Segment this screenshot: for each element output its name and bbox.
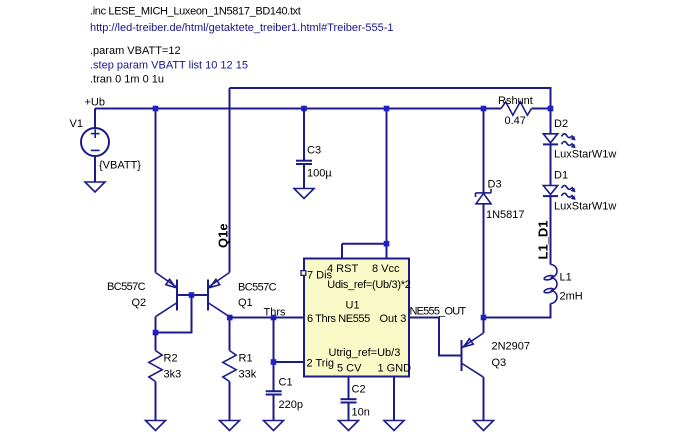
wire Vcc column (386, 109, 388, 259)
svg-text:2 Trig: 2 Trig (307, 358, 335, 370)
wire Thrs to Trig column (273, 318, 275, 392)
svg-text:.param VBATT=12: .param VBATT=12 (90, 45, 181, 57)
svg-text:Q1e: Q1e (216, 223, 231, 248)
svg-text:.inc LESE_MICH_Luxeon_1N5817_B: .inc LESE_MICH_Luxeon_1N5817_BD140.txt (90, 6, 301, 18)
junction on rail at Q2 column (153, 106, 159, 112)
schottky diode D3 (476, 189, 492, 204)
capacitor C2 (341, 399, 357, 420)
transistor Q1 BC557C (208, 273, 230, 317)
svg-text:6 Thrs NE555: 6 Thrs NE555 (307, 313, 370, 325)
svg-text:C2: C2 (352, 384, 366, 396)
voltage source V1 (81, 109, 109, 183)
svg-text:L1: L1 (560, 272, 572, 284)
junction at Q3 emitter node (481, 315, 487, 321)
svg-text:.step param VBATT list 10 12 1: .step param VBATT list 10 12 15 (90, 59, 248, 71)
svg-text:Q3: Q3 (492, 357, 507, 369)
ground below R2 (146, 421, 166, 431)
svg-text:.tran 0 1m 0 1u: .tran 0 1m 0 1u (90, 73, 164, 85)
svg-text:2mH: 2mH (560, 291, 583, 303)
wire RST drop (341, 244, 343, 259)
svg-text:2N2907: 2N2907 (492, 341, 531, 353)
wire Q3 emitter (483, 318, 485, 334)
svg-text:R2: R2 (164, 353, 178, 365)
svg-text:R1: R1 (239, 353, 253, 365)
svg-text:Q2: Q2 (132, 297, 147, 309)
resistor R2 (149, 333, 162, 421)
wire collector-base tie (156, 295, 192, 333)
op-amp-style IC U1 NE555 body (304, 259, 409, 377)
wire Thrs (230, 317, 305, 319)
capacitor C1 (266, 391, 282, 420)
wire base bus Q2-Q1 (177, 294, 208, 296)
svg-text:D2: D2 (554, 118, 568, 130)
svg-text:Q1: Q1 (238, 297, 253, 309)
svg-text:Udis_ref=(Ub/3)*2: Udis_ref=(Ub/3)*2 (327, 279, 410, 291)
svg-text:LuxStarW1w: LuxStarW1w (554, 201, 616, 213)
wire Q3 collector to ground (483, 377, 485, 420)
svg-text:C1: C1 (279, 377, 293, 389)
svg-text:0.47: 0.47 (505, 115, 526, 127)
junction at Trig tee (271, 359, 277, 365)
svg-text:8 Vcc: 8 Vcc (372, 263, 400, 275)
node L1_D1 rotated label (536, 220, 551, 259)
svg-text:C3: C3 (307, 145, 321, 157)
node Q1e rotated label (216, 223, 231, 248)
svg-text:10n: 10n (352, 407, 370, 419)
transistor Q3 2N2907 (462, 333, 484, 377)
svg-text:33k: 33k (239, 369, 257, 381)
junction on rail at D3 column (481, 106, 487, 112)
ground below V1 (85, 182, 105, 192)
wire CV drop (348, 377, 350, 400)
transistor Q2 BC557C (156, 273, 178, 317)
wire upper rail from Q1 emitter to LED chain (230, 88, 551, 109)
ground below R1 (220, 421, 240, 431)
svg-text:Rshunt: Rshunt (498, 95, 533, 107)
svg-text:BC557C: BC557C (107, 281, 146, 293)
svg-text:U1: U1 (346, 300, 360, 312)
wire lower supply rail (95, 108, 501, 110)
svg-text:3k3: 3k3 (164, 369, 182, 381)
svg-text:Out 3: Out 3 (380, 313, 407, 325)
ground below C3 (294, 189, 314, 199)
ground below Q3 (474, 421, 494, 431)
svg-text:1N5817: 1N5817 (486, 209, 525, 221)
ground below C1 (264, 421, 284, 431)
junction on base bus (189, 292, 195, 298)
svg-text:+Ub: +Ub (85, 97, 106, 109)
ground below C2 (339, 421, 359, 431)
svg-text:D1: D1 (554, 170, 568, 182)
LED D2 (543, 134, 576, 149)
wire LED column top (550, 109, 552, 134)
wire D3 column (483, 109, 485, 194)
svg-text:1 GND: 1 GND (378, 362, 412, 374)
capacitor C3 (296, 106, 312, 189)
pin 7 Dis open square (301, 271, 306, 276)
svg-text:http://led-treiber.de/html/get: http://led-treiber.de/html/getaktete_tre… (90, 22, 393, 34)
wire lower rail right of Rshunt (532, 108, 551, 110)
junction on rail at Vcc column (384, 106, 390, 112)
wire GND pin drop (393, 377, 395, 421)
wire D3 to Q3 node (483, 204, 485, 318)
wire Q2 collector to tie (155, 317, 157, 333)
wire Q1 emitter column (crosses rail) (229, 88, 231, 273)
svg-text:100µ: 100µ (307, 168, 332, 180)
wire 555 supply horizontal (342, 243, 387, 245)
junction at R2 top (153, 330, 159, 336)
LED D1 (543, 186, 576, 201)
svg-text:NE555_OUT: NE555_OUT (410, 306, 467, 318)
wire D1 to L1 (550, 196, 552, 264)
svg-text:5 CV: 5 CV (337, 362, 362, 374)
wire L1 bottom (484, 304, 551, 318)
svg-text:220p: 220p (279, 399, 303, 411)
svg-text:{VBATT}: {VBATT} (99, 160, 141, 172)
svg-text:V1: V1 (70, 118, 83, 130)
svg-text:BC557C: BC557C (238, 282, 277, 294)
svg-text:D3: D3 (488, 179, 502, 191)
ground below GND pin (384, 421, 404, 431)
resistor R1 (223, 318, 236, 421)
wire Q2 emitter column (155, 109, 157, 273)
svg-text:L1_D1: L1_D1 (536, 220, 551, 259)
wire Trig (274, 361, 305, 363)
svg-text:4 RST: 4 RST (327, 263, 358, 275)
junction at LED column (548, 106, 554, 112)
wire between D2 and D1 (550, 144, 552, 185)
wire NE555 Out to Q3 base (409, 318, 461, 356)
svg-text:Utrig_ref=Ub/3: Utrig_ref=Ub/3 (329, 347, 401, 359)
inductor L1 (544, 265, 557, 304)
junction at Q1 collector / Thrs (227, 315, 233, 321)
junction at Vcc supply tee (384, 241, 390, 247)
junction on Thrs wire (271, 315, 277, 321)
svg-text:LuxStarW1w: LuxStarW1w (554, 149, 616, 161)
resistor Rshunt (501, 102, 532, 115)
